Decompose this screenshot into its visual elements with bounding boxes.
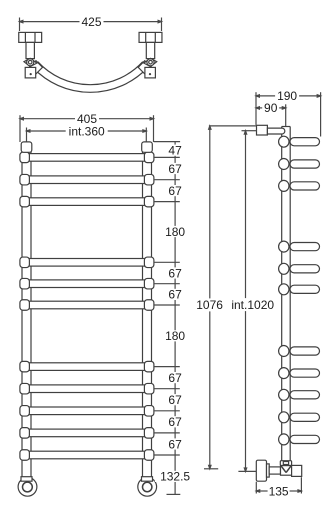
svg-text:int.360: int.360 (69, 124, 105, 138)
svg-text:67: 67 (168, 162, 182, 176)
svg-text:190: 190 (277, 89, 297, 103)
svg-text:180: 180 (165, 329, 185, 343)
svg-text:47: 47 (168, 143, 182, 157)
svg-text:135: 135 (269, 484, 289, 498)
svg-text:67: 67 (168, 437, 182, 451)
svg-text:67: 67 (168, 266, 182, 280)
svg-text:425: 425 (81, 15, 101, 29)
svg-text:int.1020: int.1020 (231, 298, 274, 312)
svg-text:132.5: 132.5 (160, 470, 190, 484)
svg-text:180: 180 (165, 225, 185, 239)
svg-text:67: 67 (168, 415, 182, 429)
svg-text:1076: 1076 (196, 298, 223, 312)
svg-text:67: 67 (168, 184, 182, 198)
svg-text:67: 67 (168, 288, 182, 302)
svg-text:67: 67 (168, 393, 182, 407)
svg-text:90: 90 (264, 101, 278, 115)
svg-text:67: 67 (168, 371, 182, 385)
